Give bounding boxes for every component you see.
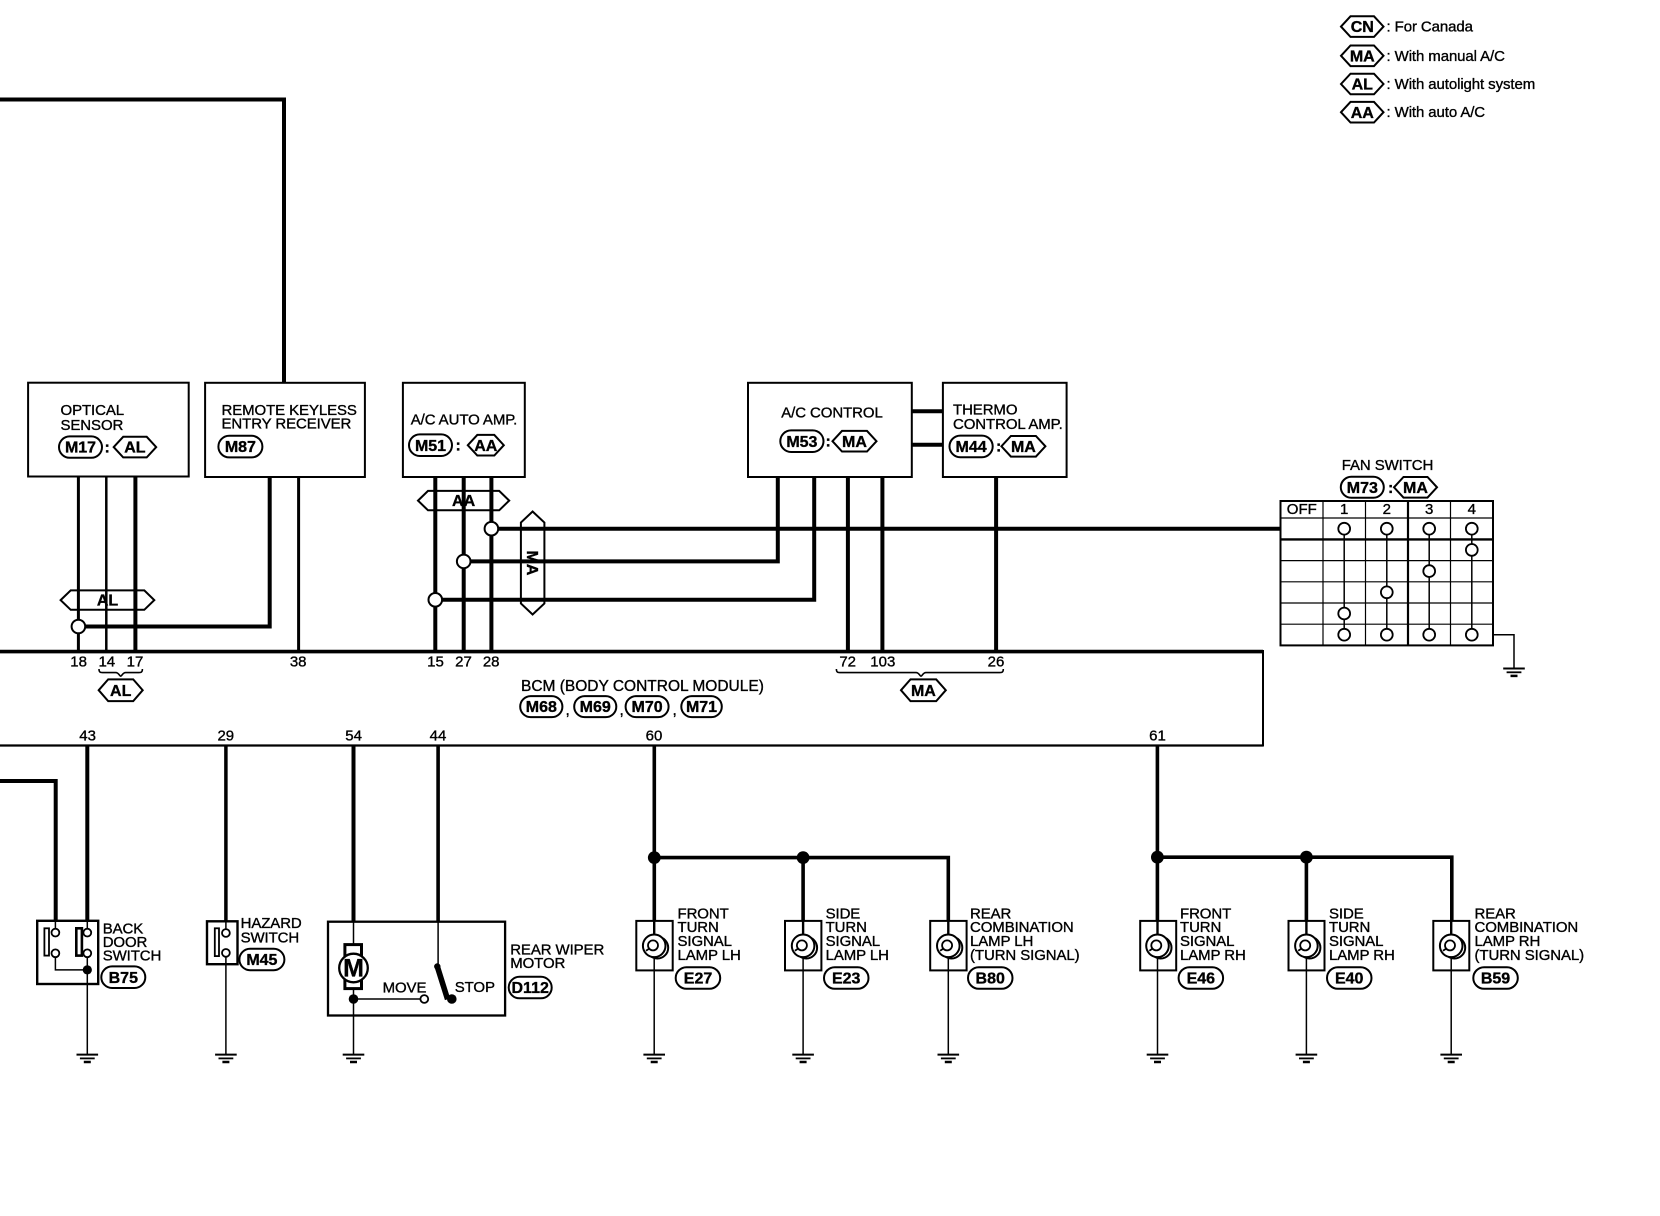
tag MA for pins 72 103 26 — [901, 679, 946, 701]
svg-text:17: 17 — [127, 654, 144, 671]
svg-text:MA: MA — [911, 683, 936, 700]
svg-text:AA: AA — [474, 438, 498, 455]
wire: lead into lamp — [1450, 921, 1452, 935]
svg-text::: : — [105, 440, 110, 457]
fan switch table M73 — [1281, 501, 1494, 645]
svg-text:: For Canada: : For Canada — [1387, 19, 1474, 36]
svg-text:44: 44 — [430, 728, 447, 745]
ground (back door switch) — [77, 1055, 99, 1062]
connector D112 — [509, 977, 552, 999]
connector B59 — [1473, 967, 1518, 989]
legend tag CN — [1341, 16, 1384, 37]
motor M circle — [339, 954, 368, 983]
legend tag MA — [1341, 46, 1384, 67]
component box: A/C AUTO AMP M51 — [403, 383, 525, 477]
connector M87 — [218, 436, 262, 458]
svg-text:,: , — [673, 702, 677, 719]
wire: thermo amp to BCM 26 — [994, 477, 998, 651]
junction dot LH 1 — [648, 851, 661, 864]
svg-text:15: 15 — [427, 654, 444, 671]
wire: A/C control to thermo amp (lower) — [912, 443, 943, 447]
wire: motor to MOVE contact — [354, 998, 421, 1000]
svg-text:,: , — [620, 702, 624, 719]
connector M73 — [1341, 477, 1384, 498]
component box: REMOTE KEYLESS ENTRY RECEIVER M87 — [205, 383, 365, 477]
svg-text:M53: M53 — [786, 434, 817, 451]
svg-text:4: 4 — [1468, 501, 1476, 518]
connector M44 — [950, 436, 993, 458]
wire: lead to right contact — [86, 921, 88, 929]
wire: BCM 29 to hazard switch — [224, 747, 228, 922]
svg-text::: : — [1388, 480, 1393, 497]
stop switch lever — [434, 963, 448, 999]
wire: A/C control to BCM 72 — [846, 477, 850, 651]
svg-text:MA: MA — [842, 434, 867, 451]
component box: OPTICAL SENSOR M17 — [28, 383, 189, 477]
junction (open) on wire 28 — [485, 522, 499, 536]
svg-text:(TURN SIGNAL): (TURN SIGNAL) — [1475, 947, 1585, 964]
wire: node 27 to A/C control pin 1 — [470, 477, 778, 561]
BCM bottom pin numbers — [79, 728, 1166, 745]
svg-text:M71: M71 — [686, 699, 717, 716]
wire: lamp to ground — [1157, 957, 1159, 1055]
contact circle — [52, 929, 60, 937]
wire: LH turn signal distribution — [654, 858, 948, 921]
contact circle — [83, 929, 91, 937]
wire: hazard switch to ground — [225, 957, 227, 1055]
svg-text:M44: M44 — [956, 439, 987, 456]
svg-text:38: 38 — [290, 654, 307, 671]
ground (wiper motor) — [343, 1055, 365, 1062]
svg-text:AL: AL — [124, 440, 146, 457]
ground (hazard switch) — [215, 1055, 237, 1062]
svg-text:AL: AL — [110, 683, 132, 700]
svg-text:SWITCH: SWITCH — [103, 948, 162, 965]
component box: HAZARD SWITCH M45 — [207, 921, 238, 964]
wire: fan switch to ground — [1493, 635, 1514, 669]
tag MA of M53 — [833, 431, 877, 452]
svg-text:MA: MA — [1350, 48, 1375, 65]
wire: lead into lamp — [1305, 921, 1307, 935]
contact circle — [222, 929, 230, 937]
junction dot below motor — [349, 994, 359, 1004]
junction dot in back door switch — [83, 965, 92, 974]
svg-text:E27: E27 — [684, 971, 713, 988]
svg-text:B75: B75 — [109, 970, 138, 987]
ground (fan switch) — [1503, 669, 1525, 676]
svg-text:14: 14 — [98, 654, 115, 671]
svg-text:M: M — [343, 955, 364, 983]
svg-text:M70: M70 — [632, 699, 663, 716]
svg-text:M69: M69 — [580, 699, 611, 716]
svg-text:M51: M51 — [415, 438, 446, 455]
svg-text:MA: MA — [1403, 480, 1428, 497]
svg-text:2: 2 — [1383, 501, 1391, 518]
MOVE contact circle — [420, 995, 428, 1003]
svg-text:MOTOR: MOTOR — [510, 955, 565, 972]
wire: lamp to ground — [1450, 957, 1452, 1055]
svg-text:3: 3 — [1425, 501, 1433, 518]
connector E46 — [1179, 967, 1224, 989]
BCM box right edge — [1262, 650, 1264, 747]
svg-text:27: 27 — [455, 654, 472, 671]
svg-text:26: 26 — [988, 654, 1005, 671]
svg-text:LAMP LH: LAMP LH — [678, 947, 741, 964]
hazard switch actuator bar — [215, 928, 219, 956]
back door switch right actuator bar — [76, 928, 82, 955]
connector E23 — [824, 967, 869, 989]
svg-text:LAMP RH: LAMP RH — [1329, 947, 1395, 964]
wire: keyless receiver to BCM 38 — [297, 477, 300, 651]
svg-text:M17: M17 — [65, 440, 96, 457]
wire: A/C control to BCM 103 — [880, 477, 884, 651]
svg-text::: : — [826, 434, 831, 451]
svg-text:18: 18 — [70, 654, 87, 671]
wire: lead to stop lever — [437, 922, 439, 967]
svg-text:MOVE: MOVE — [383, 979, 427, 996]
svg-text:SWITCH: SWITCH — [241, 930, 300, 947]
ground (B80) — [938, 1055, 960, 1062]
svg-text:AL: AL — [1352, 77, 1374, 94]
svg-text:M68: M68 — [526, 699, 557, 716]
svg-text:54: 54 — [345, 728, 362, 745]
svg-text:60: 60 — [646, 728, 663, 745]
bulb E27 — [643, 935, 668, 959]
connector M17 — [59, 436, 102, 457]
svg-text:SENSOR: SENSOR — [61, 417, 124, 434]
svg-text:OFF: OFF — [1287, 501, 1317, 518]
component box: A/C CONTROL M53 — [748, 383, 912, 477]
svg-text:: With auto A/C: : With auto A/C — [1387, 104, 1486, 121]
wire: node 28 to fan switch — [498, 527, 1281, 531]
wire: BCM 44 to wiper stop switch — [436, 747, 440, 922]
legend tag AA — [1341, 102, 1384, 123]
bulb B59 — [1440, 935, 1465, 959]
wire: lead to motor — [353, 922, 355, 945]
svg-text:FAN SWITCH: FAN SWITCH — [1342, 457, 1434, 474]
bracket under pins 72 103 26 — [836, 669, 1003, 676]
bulb B80 — [937, 935, 962, 959]
svg-text:: With autolight system: : With autolight system — [1387, 76, 1536, 93]
svg-text:CONTROL AMP.: CONTROL AMP. — [953, 416, 1063, 433]
svg-text:61: 61 — [1149, 728, 1166, 745]
wire: power feed to remote keyless entry receiver — [0, 100, 284, 384]
svg-text:: With manual A/C: : With manual A/C — [1387, 48, 1506, 65]
svg-text:D112: D112 — [512, 980, 549, 997]
wire: lead into lamp — [802, 921, 804, 935]
connector M71 — [681, 696, 722, 717]
connector M53 — [780, 430, 823, 452]
svg-text:43: 43 — [79, 728, 96, 745]
BCM top pin numbers — [70, 654, 1004, 671]
svg-text:AL: AL — [97, 593, 119, 610]
bracket under pins 14 17 — [99, 669, 142, 676]
bulb E46 — [1146, 935, 1171, 959]
svg-text:B59: B59 — [1481, 971, 1510, 988]
lamp box E46 — [1140, 921, 1176, 971]
wire: A/C control to thermo amp (upper) — [912, 409, 943, 413]
ground (B59) — [1440, 1055, 1462, 1062]
svg-text:E23: E23 — [832, 971, 861, 988]
connector E40 — [1327, 967, 1372, 989]
legend tag AL — [1341, 74, 1384, 95]
wire: lead into lamp — [1156, 921, 1158, 935]
svg-text:MA: MA — [1011, 439, 1036, 456]
wire: lamp to ground — [1305, 957, 1307, 1055]
svg-text:M87: M87 — [225, 439, 256, 456]
bulb E23 — [792, 935, 817, 959]
tag MA of M44 — [1001, 436, 1045, 457]
BCM box bottom edge — [0, 744, 1263, 746]
wire: feed to back door switch — [0, 781, 56, 921]
wire: branch to side turn signal RH — [1305, 857, 1309, 921]
ground (E23) — [792, 1055, 814, 1062]
svg-text:LAMP LH: LAMP LH — [826, 947, 889, 964]
fan switch contacts (circles) — [1338, 523, 1477, 641]
svg-text:,: , — [566, 702, 570, 719]
svg-text:28: 28 — [483, 654, 500, 671]
fan switch contact column lines — [1344, 529, 1472, 635]
motor brush rectangle — [345, 945, 362, 989]
svg-text:A/C AUTO AMP.: A/C AUTO AMP. — [411, 411, 518, 428]
tag AL of M17 — [114, 437, 157, 458]
svg-text:M73: M73 — [1347, 480, 1378, 497]
tag band AA across A/C auto amp wires — [418, 491, 509, 510]
svg-text:MA: MA — [523, 551, 540, 576]
junction dot RH 2 — [1300, 851, 1313, 864]
connector M51 — [409, 434, 452, 456]
wire: lead into lamp — [947, 921, 949, 935]
wire: BCM 60 down to front turn signal LH — [652, 747, 656, 922]
wire: RH turn signal distribution — [1157, 857, 1451, 921]
ground (E46) — [1147, 1055, 1169, 1062]
wire: optical sensor pin to BCM 18 — [77, 477, 80, 652]
svg-text:B80: B80 — [976, 971, 1005, 988]
svg-text:A/C CONTROL: A/C CONTROL — [781, 405, 882, 422]
svg-text:1: 1 — [1340, 501, 1348, 518]
ground (E27) — [643, 1055, 665, 1062]
connector B80 — [968, 967, 1013, 989]
wire: right contact to ground — [86, 957, 88, 1054]
wire: node 15 to A/C control pin 2 — [442, 477, 814, 600]
svg-text:E40: E40 — [1335, 971, 1364, 988]
wire: left contact to junction — [55, 957, 87, 970]
connector E27 — [676, 967, 721, 989]
wire: lead to top contact — [225, 921, 227, 929]
BCM box top edge (bus) — [0, 650, 1263, 654]
contact circle — [83, 949, 91, 957]
wire: BCM 43 to back door switch — [85, 747, 89, 921]
svg-text:LAMP RH: LAMP RH — [1180, 947, 1246, 964]
component box: REAR WIPER MOTOR D112 — [328, 922, 505, 1016]
component box: THERMO CONTROL AMP M44 — [943, 383, 1067, 477]
wire: lamp to ground — [947, 957, 949, 1055]
lamp box B80 — [930, 921, 966, 971]
junction (open) on wire 15 — [429, 593, 443, 607]
contact circle — [52, 949, 60, 957]
junction (open) on wire 18 — [72, 620, 86, 634]
wire: BCM 54 to wiper motor — [352, 747, 356, 922]
wire: A/C auto amp to BCM 28 — [489, 477, 493, 652]
tag band AL across optical sensor wires — [61, 590, 155, 609]
lamp box E27 — [636, 921, 672, 971]
tag AL for pins 14 17 — [99, 679, 143, 701]
connector M45 — [239, 949, 284, 970]
ground (E40) — [1296, 1055, 1318, 1062]
wire: lamp to ground — [802, 957, 804, 1055]
wire: keyless receiver to node on wire 18 — [84, 477, 270, 627]
component box: BACK DOOR SWITCH B75 — [37, 921, 98, 984]
wire: lamp to ground — [653, 957, 655, 1055]
svg-text:ENTRY RECEIVER: ENTRY RECEIVER — [222, 416, 352, 433]
svg-text:STOP: STOP — [455, 979, 495, 996]
svg-text:(TURN SIGNAL): (TURN SIGNAL) — [970, 947, 1080, 964]
junction dot LH 2 — [797, 851, 810, 864]
svg-text:CN: CN — [1351, 19, 1374, 36]
wire: motor to ground — [353, 989, 355, 1055]
tag MA of M73 — [1394, 477, 1437, 498]
svg-text::: : — [456, 438, 461, 455]
back door switch left actuator bar — [44, 928, 49, 955]
svg-text:103: 103 — [870, 654, 895, 671]
wire: branch to side turn signal LH — [801, 858, 805, 921]
wire: optical sensor pin to BCM 17 — [133, 477, 137, 652]
connector M68 — [520, 696, 562, 717]
lamp box E23 — [785, 921, 821, 971]
svg-text:72: 72 — [839, 654, 856, 671]
wire: lead into lamp — [653, 921, 655, 935]
wire: A/C auto amp to BCM 27 — [462, 477, 466, 652]
wire: A/C auto amp to BCM 15 — [433, 477, 437, 652]
fan switch header labels — [1287, 501, 1476, 518]
junction (open) on wire 27 — [457, 555, 471, 569]
junction dot RH 1 — [1151, 851, 1164, 864]
svg-text:AA: AA — [452, 493, 476, 510]
lamp box B59 — [1433, 921, 1469, 971]
connector B75 — [101, 966, 145, 988]
contact circle — [222, 949, 230, 957]
svg-text:E46: E46 — [1187, 971, 1216, 988]
svg-text:AA: AA — [1351, 105, 1375, 122]
connector M70 — [626, 696, 669, 717]
tag band MA (vertical) on bus wires — [521, 512, 545, 615]
tag AA of M51 — [468, 435, 504, 456]
lamp box E40 — [1289, 921, 1325, 971]
connector M69 — [574, 696, 616, 717]
svg-text:29: 29 — [217, 728, 234, 745]
wire: optical sensor pin to BCM 14 — [105, 477, 108, 652]
bulb E40 — [1295, 935, 1320, 959]
svg-text:BCM (BODY CONTROL MODULE): BCM (BODY CONTROL MODULE) — [521, 678, 764, 695]
svg-text:M45: M45 — [246, 952, 277, 969]
wire: lead to left contact — [54, 921, 56, 929]
svg-text::: : — [996, 439, 1001, 456]
junction dot at STOP contact — [447, 994, 457, 1004]
wire: BCM 61 down to front turn signal RH — [1156, 747, 1160, 922]
